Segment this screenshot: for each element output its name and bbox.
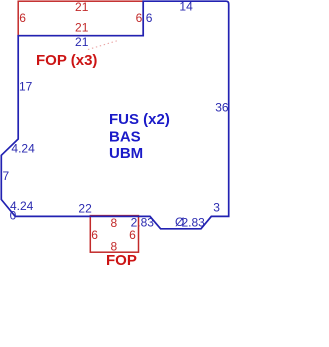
cutout rectangle FOP (x3) <box>18 1 143 36</box>
svg-text:BAS: BAS <box>109 128 141 145</box>
leader line (dotted) <box>88 41 118 50</box>
svg-text:6: 6 <box>91 228 98 242</box>
svg-text:8: 8 <box>110 216 117 230</box>
svg-text:UBM: UBM <box>109 145 143 162</box>
svg-text:7: 7 <box>3 169 10 183</box>
svg-text:FOP: FOP <box>106 252 137 269</box>
svg-text:6: 6 <box>136 11 143 25</box>
svg-text:21: 21 <box>75 21 89 35</box>
svg-text:3: 3 <box>213 201 220 215</box>
svg-text:4.24: 4.24 <box>11 141 35 155</box>
panel outline <box>1 1 228 229</box>
svg-text:22: 22 <box>78 202 92 216</box>
svg-text:21: 21 <box>75 35 89 49</box>
svg-text:36: 36 <box>215 101 229 115</box>
svg-text:6: 6 <box>19 11 26 25</box>
svg-text:6: 6 <box>146 11 153 25</box>
svg-text:FOP (x3): FOP (x3) <box>36 52 97 69</box>
svg-text:21: 21 <box>75 0 89 14</box>
svg-text:17: 17 <box>19 79 33 93</box>
svg-text:FUS (x2): FUS (x2) <box>109 111 170 128</box>
svg-text:0: 0 <box>10 209 17 223</box>
svg-text:6: 6 <box>129 228 136 242</box>
svg-text:14: 14 <box>179 0 193 13</box>
cutout rectangle FOP (bottom) <box>90 216 138 253</box>
